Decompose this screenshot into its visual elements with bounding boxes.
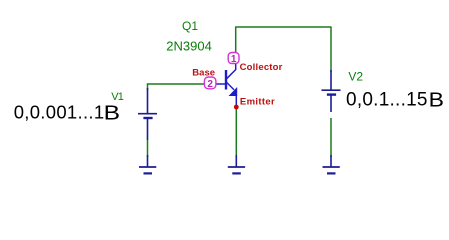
svg-text:В: В <box>429 89 444 111</box>
wire emitter to ground <box>235 108 237 157</box>
svg-text:0,0.001...1: 0,0.001...1 <box>14 101 105 122</box>
svg-text:1: 1 <box>231 54 237 65</box>
svg-text:Q1: Q1 <box>182 19 198 33</box>
svg-text:Collector: Collector <box>240 62 283 73</box>
svg-text:Emitter: Emitter <box>240 97 275 108</box>
transistor Q1 emitter arrow <box>229 88 237 96</box>
wire top horizontal collector to V2 <box>236 26 332 28</box>
pin 2 bubble <box>204 77 216 89</box>
ground (emitter) <box>228 155 245 173</box>
wire V1 vertical bottom <box>147 140 149 157</box>
wire V2 vertical bottom <box>330 118 332 157</box>
svg-text:2: 2 <box>207 79 213 90</box>
svg-text:V1: V1 <box>111 91 124 103</box>
battery V2 <box>322 70 341 112</box>
ground (V1) <box>139 155 156 173</box>
svg-text:2N3904: 2N3904 <box>166 39 212 54</box>
transistor Q1 <box>211 57 236 108</box>
wire base horizontal V1 to base <box>148 83 207 85</box>
node Emitter junction dot <box>234 105 239 110</box>
svg-text:V2: V2 <box>348 70 363 84</box>
svg-text:Base: Base <box>192 68 215 79</box>
battery V1 <box>138 88 157 140</box>
wire V1 vertical top <box>147 83 149 90</box>
pin 1 bubble <box>228 53 239 64</box>
svg-text:В: В <box>104 103 120 125</box>
wire collector vertical <box>235 27 237 53</box>
wire V2 vertical top <box>330 27 332 73</box>
svg-text:0,0.1...15: 0,0.1...15 <box>346 90 428 111</box>
ground (V2) <box>323 155 340 173</box>
